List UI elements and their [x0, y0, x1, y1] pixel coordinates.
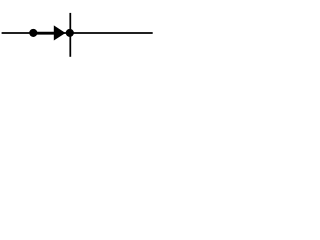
wire [2, 32, 153, 34]
wire [69, 13, 71, 57]
node A [66, 29, 74, 37]
junction [29, 29, 37, 37]
current arrow [33, 25, 65, 40]
